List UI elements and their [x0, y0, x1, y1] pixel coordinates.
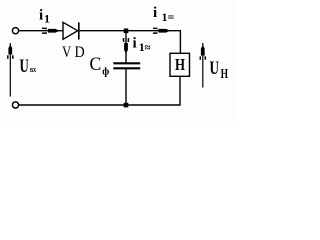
current arrow i1~ on capacitor branch (down) [124, 38, 129, 54]
diode cathode bar [78, 22, 80, 39]
capacitor C top plate [113, 62, 140, 64]
wire: capacitor branch upper [125, 31, 127, 63]
svg-text:U: U [210, 58, 220, 79]
capacitor C bottom plate [113, 67, 140, 69]
svg-text:1: 1 [44, 12, 50, 26]
node junction bottom [124, 103, 129, 108]
svg-text:i: i [39, 8, 43, 24]
voltage arrow U_in (up) [8, 43, 13, 97]
wire top: terminal to diode [19, 30, 63, 32]
svg-text:U: U [20, 56, 29, 77]
svg-text:Н: Н [175, 55, 185, 74]
diode VD triangle [63, 22, 78, 39]
load box [170, 53, 190, 76]
wire: load box to bottom wire [179, 76, 181, 105]
svg-text:i: i [153, 5, 157, 21]
svg-text:≈: ≈ [145, 42, 151, 54]
terminal top-left [12, 28, 18, 34]
current arrow i1 on top wire [42, 28, 60, 33]
svg-text:D: D [75, 44, 85, 61]
wire bottom [19, 104, 181, 106]
wire: capacitor branch lower [125, 69, 127, 105]
voltage arrow U_H (up) [200, 43, 205, 88]
wire: corner down to load box [179, 30, 181, 53]
wire top: diode to corner [80, 30, 182, 32]
current arrow i1= on top wire right [153, 28, 170, 33]
svg-text:вх: вх [30, 65, 36, 74]
svg-text:Н: Н [221, 67, 228, 82]
svg-text:ф: ф [102, 67, 109, 78]
svg-text:1=: 1= [162, 10, 175, 24]
svg-text:i: i [133, 36, 137, 52]
svg-text:C: C [90, 54, 102, 75]
node junction top [124, 29, 129, 34]
svg-text:V: V [62, 44, 72, 61]
terminal bottom-left [12, 102, 18, 108]
